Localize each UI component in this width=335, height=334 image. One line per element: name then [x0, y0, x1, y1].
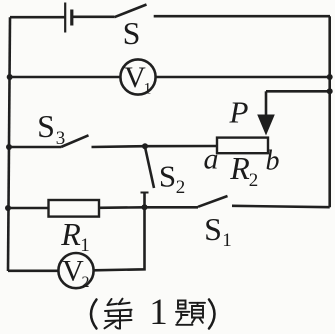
node junction bottom-left	[5, 205, 11, 211]
wire S1 to bottom-right corner	[232, 206, 330, 207]
svg-text:a: a	[204, 143, 219, 176]
node junction bottom / S2 bottom	[142, 204, 148, 210]
wire junction to R2	[145, 145, 217, 148]
svg-text:S: S	[159, 159, 176, 194]
voltmeter V2	[58, 253, 93, 291]
svg-text:R: R	[60, 216, 81, 252]
switch S	[114, 5, 146, 52]
svg-text:2: 2	[249, 170, 259, 191]
svg-text:2: 2	[176, 177, 186, 198]
battery	[65, 3, 72, 33]
node junction S3 row / S2 top	[142, 143, 148, 149]
svg-text:1: 1	[222, 230, 232, 251]
wire S3 row left	[9, 146, 61, 149]
wire switch S to top-right corner	[154, 15, 330, 18]
voltmeter V1	[120, 59, 155, 97]
svg-text:S: S	[204, 211, 222, 247]
node b label	[266, 146, 280, 177]
switch S1	[198, 196, 232, 251]
slider P of rheostat	[229, 91, 275, 135]
node a label	[204, 143, 219, 176]
wire left vertical	[8, 17, 10, 271]
wire bottom row left	[8, 207, 49, 210]
wire R1 to junction	[99, 206, 145, 209]
switch S3	[37, 108, 88, 149]
wire top-left segment	[10, 16, 65, 19]
svg-text:S: S	[37, 108, 55, 144]
wire junction to S1	[145, 206, 199, 209]
resistor R2	[217, 138, 268, 191]
node junction right V1 row	[327, 74, 333, 80]
wire P row	[266, 90, 330, 93]
caption (第1题)	[91, 292, 215, 333]
node junction right P row	[327, 88, 333, 94]
resistor R1	[49, 200, 100, 256]
svg-text:1: 1	[144, 81, 152, 98]
svg-text:3: 3	[56, 128, 66, 149]
wire V1 row right	[156, 76, 330, 79]
wire battery to switch S	[72, 15, 115, 18]
svg-text:1: 1	[149, 292, 168, 333]
node junction left S3 row	[6, 144, 12, 150]
wire S3 to junction	[92, 145, 146, 148]
switch S2	[141, 147, 186, 207]
wire V1 row left	[10, 76, 121, 79]
svg-text:b: b	[266, 146, 280, 177]
svg-text:R: R	[229, 150, 250, 186]
wire V2 branch left	[8, 269, 58, 272]
node junction left V1 row	[7, 74, 13, 80]
wire right vertical	[328, 16, 331, 207]
wire V2 branch right and up to junction	[94, 207, 145, 270]
svg-text:P: P	[229, 95, 249, 130]
svg-text:S: S	[123, 15, 141, 51]
svg-text:2: 2	[82, 274, 90, 291]
